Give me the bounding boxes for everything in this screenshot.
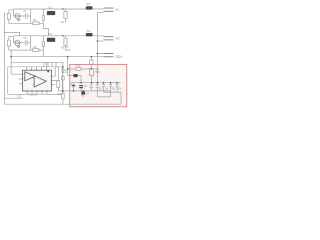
wire rail C <box>58 90 110 92</box>
svg-text:206D: 206D <box>65 49 71 52</box>
regulator IC2 <box>90 68 94 75</box>
resistor R9 <box>57 67 59 91</box>
element rect <box>62 76 65 80</box>
wire ic ground bus <box>4 97 23 99</box>
op-amp IC1 <box>23 70 52 91</box>
triac T1 <box>86 6 93 9</box>
capacitor C2 <box>42 9 44 23</box>
zener D3 <box>96 83 99 97</box>
wire diode row <box>68 75 81 82</box>
fuse F2 <box>9 37 14 43</box>
op-amp input stubs <box>24 74 35 84</box>
wire ch2 vert <box>30 36 32 50</box>
IC pins <box>11 62 60 94</box>
junction dots <box>10 8 118 92</box>
cap C7 plus <box>70 84 72 86</box>
diode D4 <box>102 83 105 92</box>
dark components <box>47 6 114 94</box>
svg-text:R1: R1 <box>61 20 65 24</box>
svg-text:230V: 230V <box>115 55 123 59</box>
capacitor C3 <box>25 40 30 45</box>
wire K1 return <box>97 12 103 82</box>
red highlight box <box>70 64 127 106</box>
svg-text:IC1: IC1 <box>18 94 23 98</box>
cap C9 <box>90 83 93 91</box>
svg-text:C5: C5 <box>23 36 27 40</box>
wire psu feed <box>67 57 69 76</box>
wire rail B <box>70 82 120 84</box>
capacitor C1 <box>25 13 30 18</box>
led D9 <box>61 70 64 73</box>
svg-text:C1: C1 <box>23 9 27 13</box>
cap C8 dark <box>79 85 83 86</box>
wire cascade 2 <box>97 96 110 98</box>
svg-text:R12: R12 <box>76 65 81 68</box>
svg-text:IC2: IC2 <box>48 5 53 9</box>
wire stubs to IC box top <box>44 62 56 67</box>
wire ch2 down link <box>42 50 44 57</box>
wire rail jog <box>4 32 19 35</box>
IC pin pads <box>22 70 52 92</box>
svg-text:K1: K1 <box>116 8 120 12</box>
PSU rails <box>58 83 121 105</box>
wire ch1 bottom <box>9 22 44 24</box>
resistor R3 <box>64 9 66 23</box>
svg-text:R6: R6 <box>33 45 37 49</box>
wire ch1 vert <box>30 9 32 23</box>
resistor R2 <box>33 22 39 25</box>
lamp La2 arrows <box>17 45 20 48</box>
regulator feed <box>90 57 92 69</box>
diode D1 leads <box>80 88 82 91</box>
wire link ch1-ch2 <box>43 23 48 36</box>
diode D7 body <box>81 92 85 95</box>
svg-text:TLC272: TLC272 <box>28 93 38 96</box>
opto U2 <box>47 38 55 42</box>
svg-text:Tri1: Tri1 <box>86 2 91 6</box>
opto U1 <box>47 11 55 15</box>
wire ch2 top <box>13 35 103 37</box>
wire ch1 top <box>13 8 103 10</box>
wire mains row <box>11 56 103 58</box>
wire 230V top bar link <box>97 53 103 55</box>
svg-text:R2: R2 <box>33 18 37 22</box>
resistor R11 <box>76 68 81 71</box>
svg-text:Tri2: Tri2 <box>86 29 91 33</box>
cap C7 plus bar <box>72 85 75 86</box>
wire psu left chain <box>62 62 64 104</box>
cap C7 elco <box>72 83 75 91</box>
wire K2 return <box>97 40 103 42</box>
diode D7 lead <box>82 90 84 93</box>
svg-text:7805: 7805 <box>95 71 101 74</box>
diode D6 <box>116 83 119 92</box>
resistor R10 <box>62 93 64 99</box>
text labels <box>18 2 124 98</box>
lamp La2 <box>15 40 20 45</box>
wire V2 <box>11 50 63 74</box>
wire cascade 1 <box>104 92 121 104</box>
svg-text:R13: R13 <box>57 93 62 96</box>
diode D5 <box>109 83 112 97</box>
triac T2 <box>86 33 93 36</box>
capacitor C4 <box>42 36 44 50</box>
230V bars <box>104 52 114 55</box>
svg-text:K2: K2 <box>116 37 120 41</box>
wire bottom bus <box>4 103 121 105</box>
svg-text:IC3: IC3 <box>48 32 53 36</box>
wire left rail <box>3 13 5 105</box>
lamp La1 arrows <box>17 18 20 21</box>
resistor R6 <box>64 36 66 50</box>
IC enclosure box <box>8 67 63 95</box>
diode D8 psu <box>74 74 78 77</box>
resistor R5 <box>33 49 39 52</box>
lamp La1 <box>15 13 20 18</box>
wire psu top row <box>68 68 90 70</box>
red box tint <box>70 64 127 106</box>
ground marks <box>81 95 85 97</box>
K2 bars <box>104 35 114 38</box>
fuse F1 <box>9 10 14 16</box>
wire ch2 bottom <box>9 49 44 51</box>
K1 bars <box>104 7 114 10</box>
